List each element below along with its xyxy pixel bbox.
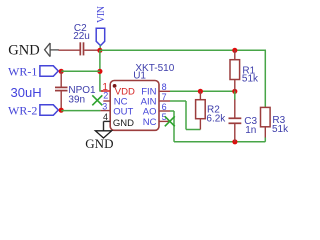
wire bottom net — [174, 141, 265, 143]
resistor R1 — [234, 50, 236, 59]
svg-text:51k: 51k — [272, 124, 289, 135]
wire to R2 bottom — [186, 129, 200, 131]
wire pin 7 right — [170, 100, 186, 102]
pin 6 stub — [159, 110, 170, 112]
ground symbol (bottom) — [95, 131, 111, 138]
pin 4 stub (black) — [104, 120, 111, 122]
svg-text:8: 8 — [162, 82, 167, 92]
svg-text:WR-2: WR-2 — [8, 104, 37, 118]
svg-text:U1: U1 — [133, 71, 146, 82]
wire WR-1 to VIN column — [61, 70, 100, 72]
svg-text:AO: AO — [143, 106, 157, 117]
junction R2 top — [198, 89, 203, 94]
wire pin 4 down — [103, 121, 105, 130]
junction WR-1 — [97, 69, 102, 74]
wire WR-2 to pin 3 — [61, 110, 100, 112]
no-connect X pin 5 — [165, 116, 175, 126]
svg-text:2: 2 — [103, 91, 108, 101]
junction VIN/rail — [97, 48, 102, 53]
flag WR-1 — [40, 66, 58, 77]
resistor R2 — [199, 91, 201, 99]
power flag VIN — [96, 28, 105, 45]
pin 2 stub — [103, 100, 110, 102]
svg-text:6.2k: 6.2k — [206, 114, 226, 125]
wire NPO1 bottom lead — [60, 91, 62, 110]
wire pin 3 stub — [100, 110, 110, 112]
wire pin 7 down — [185, 101, 187, 130]
svg-text:4: 4 — [103, 112, 108, 122]
capacitor C3 — [234, 100, 236, 118]
svg-text:30uH: 30uH — [11, 85, 42, 100]
svg-text:3: 3 — [102, 101, 107, 111]
svg-text:22u: 22u — [73, 31, 90, 42]
svg-text:51k: 51k — [242, 74, 259, 85]
pin 1 stub (red) — [101, 90, 110, 92]
wire C2 left lead — [59, 49, 80, 51]
svg-text:GND: GND — [85, 136, 113, 151]
op IC U1 XKT-510 body — [110, 81, 159, 131]
wire into pin 1 — [99, 90, 103, 92]
wire VIN to rail — [99, 46, 101, 51]
svg-text:WR-1: WR-1 — [8, 65, 37, 79]
wire top rail (green) — [100, 49, 266, 51]
pin 5 stub — [159, 120, 170, 122]
wire right edge vertical down to R3 — [264, 50, 266, 107]
flag WR-2 — [40, 105, 58, 116]
svg-text:VIN: VIN — [96, 6, 107, 23]
svg-text:39n: 39n — [68, 94, 85, 105]
no-connect X pin 2 — [92, 95, 102, 105]
wire pin 6 right — [170, 110, 174, 112]
svg-text:1n: 1n — [245, 125, 256, 136]
capacitor C2 — [79, 42, 81, 55]
wire GND to C2 (gray lead) — [50, 49, 59, 51]
wire pin 8 to R1 bottom — [170, 90, 235, 92]
pin 8 stub — [159, 90, 170, 92]
svg-text:GND: GND — [113, 118, 134, 129]
svg-text:OUT: OUT — [113, 106, 133, 117]
pin 7 stub — [159, 100, 170, 102]
wire VIN vertical down — [99, 50, 101, 90]
pin 1 index dot — [113, 84, 117, 88]
svg-text:GND: GND — [8, 42, 39, 58]
wire NPO1 top lead — [60, 71, 62, 87]
ground flag (top left arrow) — [45, 43, 51, 57]
junction WR-2 flag — [59, 108, 64, 113]
wire C2 right lead — [84, 49, 100, 51]
resistor R3 — [264, 106, 266, 109]
wire pin 6 down — [173, 111, 175, 142]
junction R1 top — [232, 48, 237, 53]
junction C3 bottom — [232, 139, 237, 144]
wire C3 top (green bit) — [234, 91, 236, 100]
junction WR-1 flag — [59, 69, 64, 74]
capacitor NPO1 — [55, 86, 68, 88]
junction R1 bottom — [232, 89, 237, 94]
svg-text:NC: NC — [143, 117, 157, 128]
